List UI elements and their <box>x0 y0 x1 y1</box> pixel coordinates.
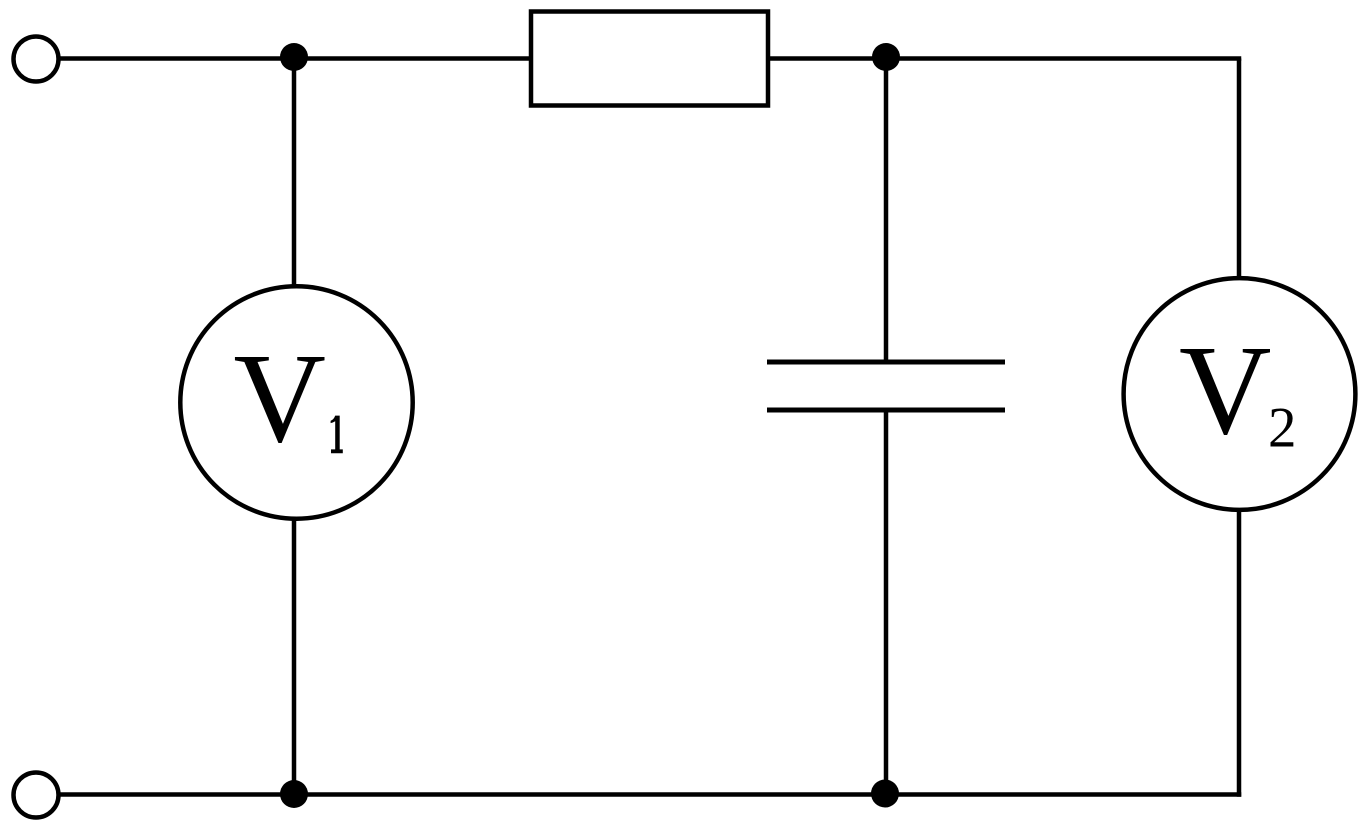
svg-text:2: 2 <box>1268 396 1297 459</box>
capacitor C1 bottom plate <box>767 408 1005 413</box>
capacitor C1 top plate <box>767 360 1005 365</box>
wire node B down to capacitor C1 <box>884 59 889 363</box>
wire node B to top-right corner <box>886 56 1241 61</box>
wire T2 to node C <box>59 792 295 797</box>
terminal T2 (bottom-left input) <box>14 773 59 818</box>
wire resistor R1 right to node B <box>768 56 886 61</box>
node D (junction bottom-middle) <box>871 780 899 808</box>
wire node C to node D <box>294 792 885 797</box>
voltmeter V1 <box>180 286 412 518</box>
svg-text:V: V <box>234 327 326 469</box>
wire node D to bottom-right corner <box>885 792 1241 797</box>
node A (junction top-left) <box>280 43 308 71</box>
resistor R1 <box>531 12 768 106</box>
wire top-right corner down to V2 <box>1237 59 1242 279</box>
svg-text:V: V <box>1179 319 1271 461</box>
wire node A to resistor R1 left <box>294 56 531 61</box>
wire node A down to V1 <box>292 59 297 287</box>
voltmeter V2 <box>1124 278 1356 510</box>
wire V1 bottom to node C <box>292 520 297 795</box>
node B (junction top-middle) <box>872 43 900 71</box>
wire T1 to node A <box>59 56 295 61</box>
terminal T1 (top-left input) <box>14 37 59 82</box>
node C (junction bottom-left) <box>280 780 308 808</box>
wire capacitor C1 to node D <box>884 410 889 795</box>
wire V2 bottom to bottom-right corner <box>1237 512 1242 797</box>
